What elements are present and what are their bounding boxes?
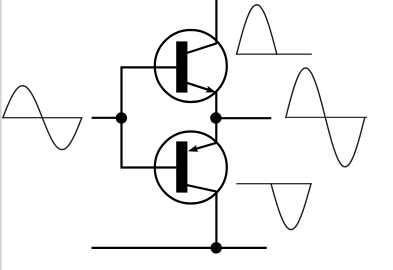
transistor Q2 PNP: [155, 132, 227, 204]
node bottom rail junction: [211, 242, 222, 253]
wire base Q1: [121, 66, 177, 68]
wire input: [92, 117, 122, 119]
input sine waveform: [3, 86, 82, 150]
wire output stub: [216, 117, 271, 119]
wire base bus vertical: [120, 67, 122, 167]
wire collector Q2 to bottom rail: [215, 191, 217, 248]
node output junction: [210, 112, 221, 123]
wire bottom rail: [92, 247, 267, 249]
waveform output full sine: [286, 68, 368, 167]
wire base Q2: [121, 166, 177, 168]
waveform Q1 output positive half-wave: [236, 5, 312, 55]
node input junction: [116, 112, 127, 123]
waveform Q2 output negative half-wave: [236, 184, 311, 230]
wire emitter column Q1 to Q2: [215, 92, 217, 143]
wire collector Q1 to top rail: [215, 0, 217, 44]
transistor Q1 NPN: [155, 30, 227, 102]
